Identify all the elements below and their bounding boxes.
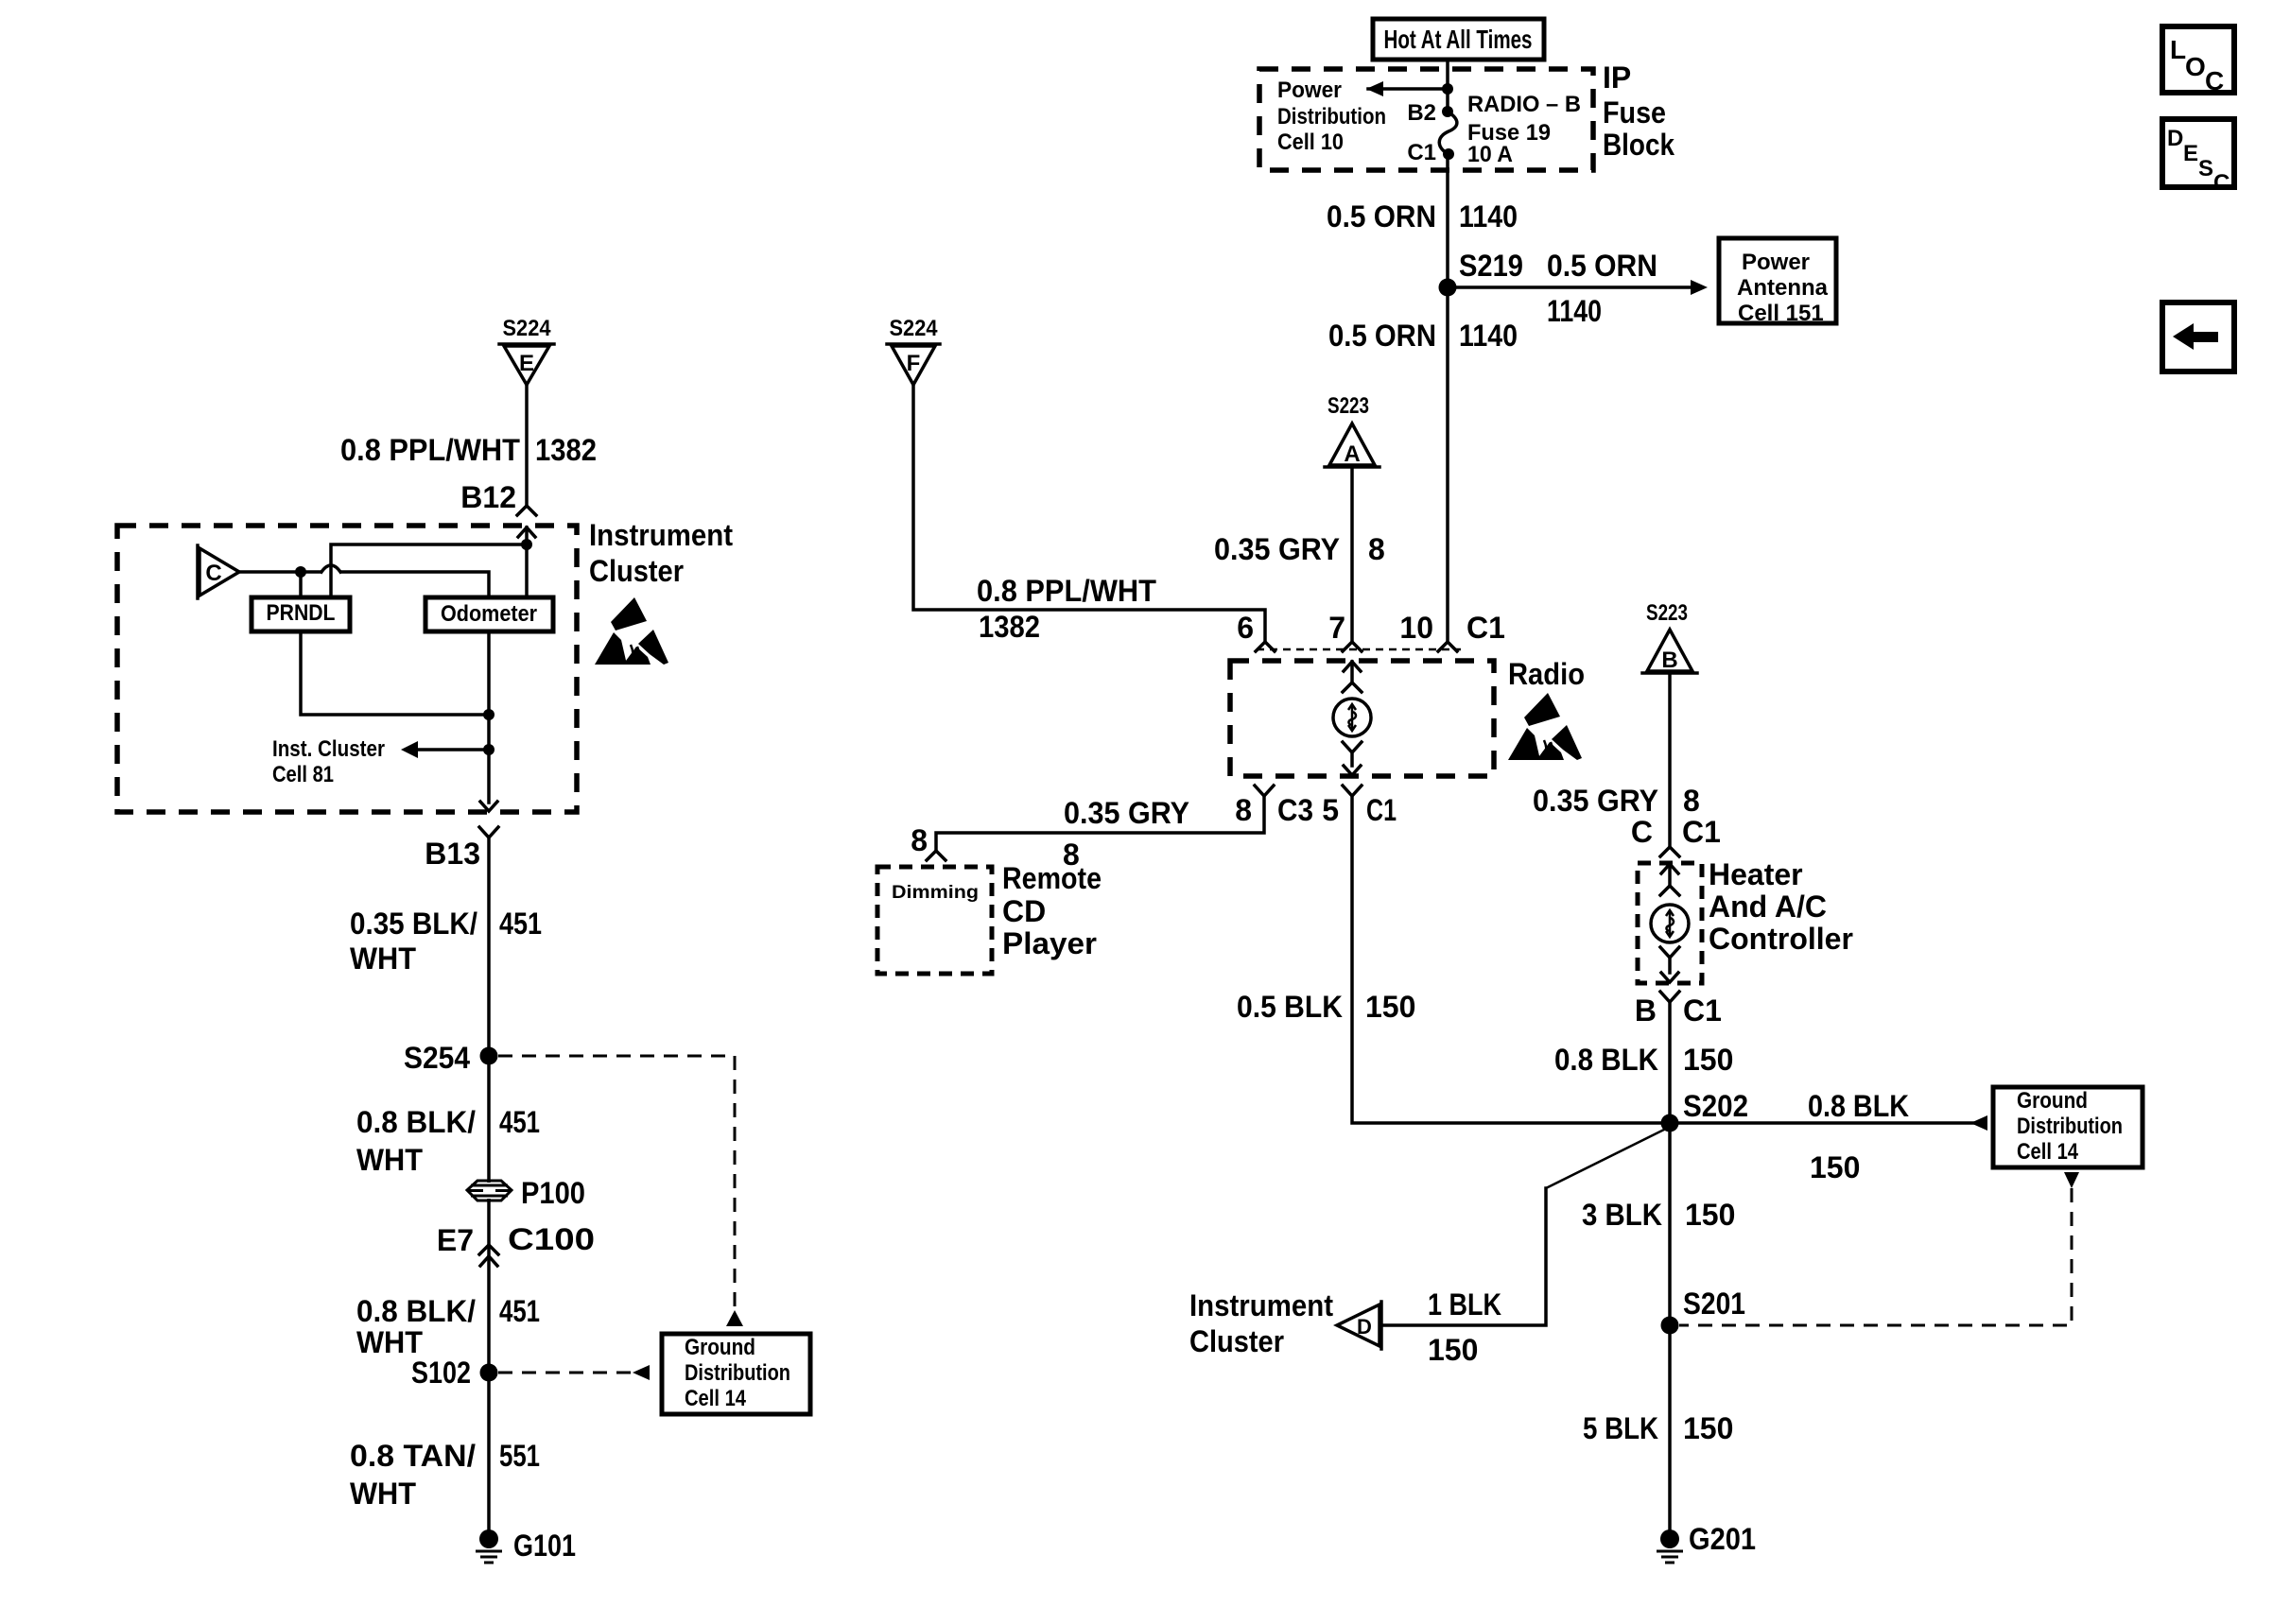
- svg-text:B12: B12: [460, 480, 516, 514]
- svg-text:B13: B13: [425, 837, 480, 871]
- svg-text:Player: Player: [1002, 926, 1097, 960]
- connector at radio pin 6: [1256, 642, 1275, 651]
- svg-text:WHT: WHT: [350, 1477, 416, 1511]
- svg-text:1382: 1382: [979, 610, 1040, 644]
- svg-text:0.8 PPL/WHT: 0.8 PPL/WHT: [340, 433, 520, 467]
- PRNDL box: [252, 597, 350, 631]
- svg-text:Instrument: Instrument: [589, 518, 733, 552]
- svg-text:8: 8: [1368, 532, 1385, 566]
- Radio dashed box: [1230, 661, 1494, 776]
- svg-text:C: C: [2205, 66, 2224, 95]
- DESC icon box: [2162, 119, 2234, 187]
- svg-text:S224: S224: [503, 316, 552, 341]
- heater internal circuit arrows: [1661, 864, 1678, 873]
- fuse RADIO-B Fuse 19 10A: [1439, 112, 1457, 154]
- wire 0.5 ORN 1140 to power antenna: [1448, 285, 1692, 289]
- svg-text:WHT: WHT: [356, 1143, 423, 1177]
- svg-text:CD: CD: [1002, 894, 1046, 928]
- triangle connector E: [499, 342, 554, 346]
- svg-text:0.5 ORN: 0.5 ORN: [1327, 199, 1436, 233]
- svg-text:E: E: [519, 351, 534, 376]
- Heater And A/C Controller dashed box: [1638, 863, 1702, 983]
- svg-text:Power: Power: [1277, 78, 1342, 103]
- wire 1 BLK 150 from S202 to instrument cluster D: [1546, 1127, 1670, 1188]
- radio C1 connector dashed line: [1257, 648, 1461, 651]
- svg-text:551: 551: [499, 1439, 540, 1473]
- splice S219: [1439, 279, 1457, 297]
- connector B13 at cluster bottom: [480, 802, 497, 811]
- svg-text:C3: C3: [1277, 793, 1313, 827]
- connector at radio pin 7: [1343, 642, 1362, 651]
- svg-text:451: 451: [499, 907, 542, 941]
- svg-text:150: 150: [1365, 990, 1415, 1024]
- svg-text:C1: C1: [1682, 815, 1721, 849]
- svg-text:O: O: [2185, 52, 2206, 81]
- svg-text:WHT: WHT: [350, 942, 416, 976]
- triangle connector A: [1325, 465, 1379, 469]
- svg-text:C100: C100: [508, 1222, 595, 1256]
- svg-text:Antenna: Antenna: [1737, 275, 1829, 301]
- svg-text:S102: S102: [411, 1356, 471, 1390]
- svg-text:P100: P100: [521, 1176, 585, 1210]
- triangle connector D: [1379, 1302, 1383, 1349]
- svg-text:Dimming: Dimming: [892, 883, 979, 903]
- svg-text:7: 7: [1328, 611, 1345, 645]
- connector E7 C100: [479, 1245, 498, 1254]
- svg-text:C1: C1: [1683, 993, 1722, 1028]
- svg-text:0.5 BLK: 0.5 BLK: [1237, 990, 1343, 1024]
- svg-text:Cell 81: Cell 81: [272, 762, 334, 787]
- wire 0.8 BLK 150 down to S202 then G201: [1668, 1002, 1672, 1529]
- arrow to Power Distribution Cell 10: [1368, 87, 1448, 91]
- svg-text:S201: S201: [1683, 1287, 1745, 1321]
- svg-text:0.8 BLK: 0.8 BLK: [1554, 1043, 1658, 1077]
- svg-text:150: 150: [1810, 1150, 1860, 1184]
- svg-text:Controller: Controller: [1709, 922, 1853, 956]
- wire from node to Odometer: [525, 544, 529, 597]
- svg-text:E: E: [2183, 141, 2198, 166]
- svg-text:0.8 BLK: 0.8 BLK: [1808, 1089, 1909, 1123]
- dashed wire S102 to ground distribution: [498, 1372, 633, 1374]
- Odometer box: [425, 597, 553, 631]
- svg-text:8: 8: [911, 823, 928, 857]
- svg-text:E7: E7: [437, 1223, 474, 1257]
- svg-text:150: 150: [1685, 1198, 1735, 1232]
- wire 0.35 GRY 8 to heater: [1668, 673, 1672, 846]
- svg-text:10 A: 10 A: [1467, 142, 1513, 167]
- svg-text:3 BLK: 3 BLK: [1582, 1198, 1662, 1232]
- node and arrow to Inst. Cluster Cell 81: [483, 744, 495, 755]
- svg-text:Cluster: Cluster: [1189, 1324, 1284, 1358]
- svg-text:C1: C1: [1407, 140, 1436, 165]
- svg-text:0.5 ORN: 0.5 ORN: [1547, 249, 1657, 283]
- svg-text:C: C: [1631, 815, 1653, 849]
- svg-text:0.35 GRY: 0.35 GRY: [1064, 796, 1189, 830]
- svg-text:1140: 1140: [1547, 294, 1602, 328]
- dashed wire S254 to ground distribution: [498, 1056, 735, 1308]
- svg-text:RADIO – B: RADIO – B: [1467, 92, 1581, 117]
- wire from node to PRNDL: [331, 544, 527, 597]
- svg-text:Instrument: Instrument: [1189, 1288, 1333, 1322]
- svg-text:8: 8: [1235, 793, 1252, 827]
- svg-text:A: A: [1344, 441, 1360, 467]
- radio bottom connector pin 5 C1: [1343, 786, 1362, 796]
- LOC icon box: [2162, 26, 2234, 93]
- svg-text:Ground: Ground: [685, 1335, 755, 1360]
- svg-text:G201: G201: [1689, 1522, 1756, 1556]
- IP Fuse Block dashed box: [1259, 69, 1593, 170]
- svg-text:D: D: [1357, 1315, 1372, 1339]
- triangle connector F: [887, 342, 940, 346]
- svg-text:PRNDL: PRNDL: [267, 600, 336, 626]
- svg-text:S254: S254: [404, 1041, 470, 1075]
- connector B12: [517, 506, 536, 515]
- Ground Distribution Cell 14 box right: [1993, 1087, 2143, 1167]
- svg-text:1140: 1140: [1459, 319, 1518, 353]
- svg-text:1140: 1140: [1459, 199, 1518, 233]
- svg-text:Cell 14: Cell 14: [2017, 1139, 2079, 1165]
- svg-text:C1: C1: [1366, 793, 1397, 827]
- splice S102: [480, 1364, 498, 1382]
- svg-text:B2: B2: [1407, 100, 1436, 126]
- radio internal circuit arrows: [1344, 662, 1361, 671]
- Power Antenna Cell 151 box: [1719, 238, 1836, 323]
- svg-text:0.5 ORN: 0.5 ORN: [1328, 319, 1436, 353]
- svg-text:150: 150: [1428, 1333, 1478, 1367]
- svg-text:C1: C1: [1466, 611, 1505, 645]
- dashed wire from ground distribution down to S201: [2064, 1172, 2079, 1188]
- svg-text:S202: S202: [1683, 1089, 1748, 1123]
- svg-text:S223: S223: [1327, 393, 1369, 419]
- svg-text:Block: Block: [1603, 128, 1674, 162]
- svg-text:Remote: Remote: [1002, 861, 1102, 895]
- svg-text:Inst. Cluster: Inst. Cluster: [272, 736, 385, 762]
- svg-text:G101: G101: [513, 1529, 576, 1563]
- Ground Distribution Cell 14 box left: [662, 1334, 810, 1414]
- svg-text:Heater: Heater: [1709, 857, 1803, 891]
- wire from C with crossover hop: [239, 570, 321, 574]
- svg-text:Distribution: Distribution: [1277, 104, 1386, 130]
- radio bottom connector pin 8 C3: [1255, 786, 1274, 796]
- wire 0.35 BLK/WHT 451: [487, 838, 491, 1529]
- svg-text:C: C: [2213, 170, 2230, 196]
- svg-text:C: C: [205, 561, 221, 586]
- wire 0.35 GRY 8: [1350, 467, 1354, 641]
- svg-text:F: F: [907, 351, 921, 376]
- svg-text:6: 6: [1237, 611, 1254, 645]
- wire 0.5 ORN 1140 down to S219 and radio: [1446, 154, 1449, 642]
- splice S201: [1661, 1317, 1679, 1335]
- svg-text:0.35 BLK/: 0.35 BLK/: [350, 907, 477, 941]
- ESD symbol radio: [1508, 693, 1582, 760]
- svg-text:0.8 PPL/WHT: 0.8 PPL/WHT: [977, 574, 1156, 608]
- triangle connector C: [196, 545, 200, 598]
- grommet P100: [469, 1183, 510, 1199]
- svg-text:WHT: WHT: [356, 1325, 423, 1359]
- splice S202: [1661, 1114, 1679, 1132]
- ground G201: [1660, 1529, 1679, 1548]
- svg-text:10: 10: [1399, 611, 1433, 645]
- svg-text:S219: S219: [1459, 249, 1523, 283]
- svg-text:B: B: [1635, 993, 1657, 1028]
- svg-text:Cluster: Cluster: [589, 554, 684, 588]
- svg-text:Fuse: Fuse: [1603, 95, 1666, 130]
- svg-text:451: 451: [499, 1105, 540, 1139]
- svg-text:Distribution: Distribution: [685, 1360, 790, 1386]
- Hot At All Times box: [1373, 19, 1544, 60]
- svg-text:1 BLK: 1 BLK: [1428, 1287, 1501, 1322]
- radio internal lamp circle: [1333, 699, 1371, 736]
- svg-text:0.8 BLK/: 0.8 BLK/: [356, 1105, 476, 1139]
- svg-text:S: S: [2198, 156, 2213, 181]
- svg-text:Cell 14: Cell 14: [685, 1386, 747, 1411]
- wire PRNDL bottom to junction: [301, 631, 489, 715]
- wire 0.5 BLK 150 from radio pin 5 down: [1352, 796, 1670, 1123]
- svg-text:Ground: Ground: [2017, 1088, 2088, 1114]
- wire 0.8 PPL/WHT 1382: [913, 385, 1265, 641]
- ground G101: [479, 1529, 498, 1548]
- node at B12 inside cluster: [521, 539, 532, 550]
- heater internal lamp circle: [1651, 905, 1689, 942]
- triangle connector B: [1642, 671, 1697, 675]
- svg-text:S223: S223: [1646, 600, 1688, 626]
- svg-text:5 BLK: 5 BLK: [1583, 1411, 1658, 1445]
- wire 0.8 BLK 150 to ground distribution: [1670, 1121, 1986, 1125]
- svg-text:Hot At All Times: Hot At All Times: [1384, 25, 1533, 54]
- svg-text:S224: S224: [890, 316, 939, 341]
- splice S254: [480, 1047, 498, 1065]
- svg-text:B: B: [1661, 648, 1677, 673]
- svg-text:150: 150: [1683, 1411, 1733, 1445]
- Dimming / Remote CD Player dashed box: [877, 867, 992, 974]
- svg-text:0.8 TAN/: 0.8 TAN/: [350, 1439, 476, 1473]
- back arrow icon box: [2162, 302, 2234, 371]
- svg-text:5: 5: [1322, 793, 1339, 827]
- svg-text:8: 8: [1683, 784, 1700, 818]
- heater bottom connector B C1: [1660, 992, 1679, 1002]
- wire Odometer bottom down: [487, 631, 491, 803]
- svg-text:0.35 GRY: 0.35 GRY: [1214, 532, 1340, 566]
- svg-text:0.35 GRY: 0.35 GRY: [1533, 784, 1658, 818]
- wire 0.8 PPL/WHT 1382 to B12: [525, 385, 529, 505]
- svg-text:Cell 10: Cell 10: [1277, 130, 1344, 155]
- svg-text:And A/C: And A/C: [1709, 890, 1827, 924]
- svg-text:D: D: [2167, 126, 2183, 151]
- svg-text:Radio: Radio: [1508, 657, 1585, 691]
- svg-text:150: 150: [1683, 1043, 1733, 1077]
- svg-text:L: L: [2170, 35, 2186, 64]
- connector at radio pin 10: [1438, 642, 1457, 651]
- ESD symbol instrument cluster: [595, 597, 668, 665]
- svg-text:Power: Power: [1742, 250, 1810, 275]
- svg-text:451: 451: [499, 1294, 540, 1328]
- svg-text:Odometer: Odometer: [441, 601, 537, 627]
- svg-text:0.8 BLK/: 0.8 BLK/: [356, 1294, 476, 1328]
- svg-text:IP: IP: [1603, 60, 1631, 95]
- wire from Hot box into fuse block: [1446, 60, 1449, 112]
- svg-text:Distribution: Distribution: [2017, 1114, 2123, 1139]
- svg-text:1382: 1382: [535, 433, 597, 467]
- svg-text:Cell 151: Cell 151: [1738, 301, 1824, 326]
